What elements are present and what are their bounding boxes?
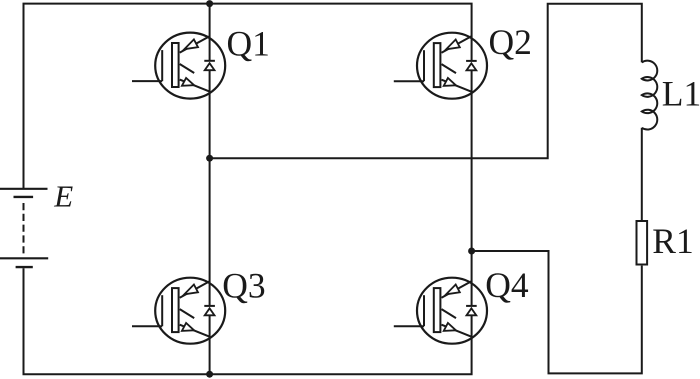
transistor Q1 bbox=[132, 33, 225, 99]
wire: left leg upper bbox=[209, 4, 211, 61]
node B junction bbox=[468, 248, 475, 255]
svg-text:E: E bbox=[53, 179, 73, 214]
junction top rail bbox=[206, 0, 213, 7]
svg-text:Q3: Q3 bbox=[222, 266, 265, 306]
battery E short plate 1 bbox=[14, 196, 34, 198]
junction bottom rail bbox=[206, 371, 213, 378]
node A junction bbox=[206, 155, 213, 162]
svg-text:L1: L1 bbox=[662, 74, 700, 114]
wire: L1 to R1 bbox=[641, 128, 643, 220]
battery E long plate 2 bbox=[0, 257, 48, 259]
inductor L1 coil bbox=[642, 61, 657, 130]
svg-text:R1: R1 bbox=[652, 221, 693, 261]
battery E long plate 1 bbox=[0, 188, 48, 190]
resistor R1 body bbox=[637, 221, 648, 265]
wire: left rail top, top rail, right leg upper bbox=[24, 4, 472, 188]
wire: left leg middle bbox=[209, 70, 211, 306]
transistor Q3 bbox=[132, 278, 225, 344]
transistor Q2 bbox=[394, 33, 487, 99]
wire: left rail bottom, bottom rail, right leg lower bbox=[24, 268, 472, 374]
svg-text:Q1: Q1 bbox=[227, 24, 270, 64]
battery E short plate 2 bbox=[16, 266, 33, 268]
wire: right leg middle bbox=[471, 70, 473, 306]
svg-text:Q2: Q2 bbox=[489, 22, 532, 62]
wire: node B to R1 bottom bbox=[472, 251, 642, 373]
battery E dashed link bbox=[23, 203, 25, 256]
transistor Q4 bbox=[394, 278, 487, 344]
svg-text:Q4: Q4 bbox=[485, 265, 529, 305]
wire: left leg lower bbox=[209, 315, 211, 374]
wire: node A to L1 top bbox=[210, 4, 642, 159]
